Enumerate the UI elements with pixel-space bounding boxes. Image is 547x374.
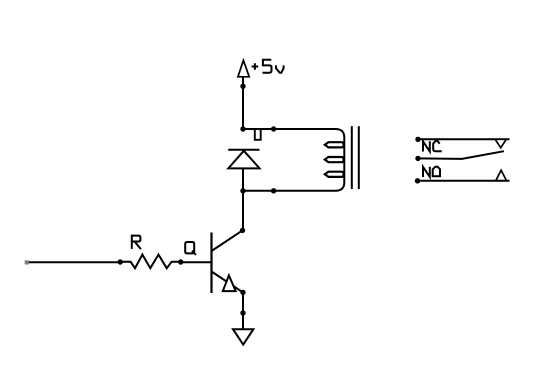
diode cathode bar (228, 149, 259, 151)
wire input (29, 261, 120, 263)
ground (233, 329, 253, 344)
node below power (240, 84, 245, 89)
transistor Q base bar (210, 233, 212, 294)
node COM terminal (415, 156, 420, 161)
wire COM movable arm (418, 151, 504, 159)
node resistor right (178, 259, 183, 264)
transistor emitter lead (212, 272, 244, 293)
coil turn leaf 2 (325, 157, 344, 162)
label NO (423, 167, 440, 177)
relay coil K loop wires (243, 129, 344, 191)
wire top rail (242, 77, 244, 129)
diode D triangle (228, 151, 259, 169)
relay core line 1 (351, 126, 353, 189)
node collector junction (240, 228, 245, 233)
resistor R (120, 255, 181, 269)
node emitter (240, 290, 245, 295)
label Q (185, 242, 196, 255)
label +5v (252, 60, 284, 73)
node rail x bottom coil wire (240, 188, 245, 193)
relay core line 2 (358, 126, 360, 189)
input pin marker (25, 260, 29, 264)
node rail x top coil wire (240, 126, 245, 131)
node resistor left (118, 259, 123, 264)
coil turn leaf 3 (325, 172, 344, 177)
transistor emitter arrow (223, 275, 236, 291)
wire emitter to ground (242, 292, 244, 329)
wire rail through diode to collector (242, 168, 244, 230)
power +5v symbol (238, 60, 249, 77)
NC fixed contact arrow (495, 139, 506, 148)
wire base (181, 261, 212, 263)
coil turn leaf 1 (325, 142, 344, 147)
node NO terminal (415, 178, 420, 183)
wire NC contact (418, 138, 510, 140)
label NC (423, 140, 442, 152)
node coil pin bottom (271, 188, 276, 193)
node ground wire (240, 310, 245, 315)
wire NO contact (418, 180, 510, 182)
NO fixed contact arrow (496, 170, 507, 180)
transistor collector lead (212, 230, 243, 251)
node coil pin top (271, 126, 276, 131)
diode polarity mark (255, 130, 261, 140)
node NC terminal (415, 137, 420, 142)
label R (132, 236, 141, 250)
